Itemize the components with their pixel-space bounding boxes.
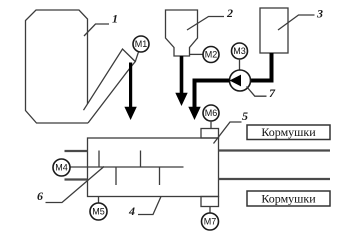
- svg-text:М7: М7: [204, 217, 217, 227]
- feed pipe upper left stub: [65, 150, 88, 152]
- svg-text:5: 5: [242, 109, 248, 123]
- svg-text:М2: М2: [205, 50, 218, 60]
- mixer box 4: [88, 138, 219, 197]
- motor M2: [203, 47, 219, 63]
- motor M6: [203, 105, 219, 121]
- paddle up 1: [98, 151, 100, 168]
- label 7 leader: [247, 87, 267, 97]
- feed pipe upper to feeders: [219, 149, 331, 151]
- arrow from funnel 2: [175, 56, 187, 106]
- arrow from chute outlet: [124, 63, 136, 121]
- pipe tank3 to blower: [250, 53, 272, 81]
- paddle up 2: [140, 151, 142, 168]
- tank 3: [260, 8, 288, 53]
- motor M7: [202, 213, 219, 230]
- svg-text:М3: М3: [233, 46, 246, 56]
- label 2 leader: [187, 17, 224, 31]
- wire M4 to shaft: [70, 166, 88, 168]
- auger shaft 6: [88, 166, 184, 168]
- svg-text:4: 4: [128, 204, 135, 218]
- inclined chute conveyor: [84, 49, 136, 123]
- label 3 leader: [278, 15, 315, 30]
- wire M7 to outlet: [209, 207, 211, 214]
- label 4 leader: [138, 197, 161, 215]
- hopper bin 1: [26, 10, 89, 123]
- pipe blower to mixer inlet: [195, 81, 230, 110]
- feeder box bottom: [247, 191, 330, 206]
- feed pipe lower left stub: [65, 178, 88, 180]
- label 5 leader: [214, 122, 242, 144]
- motor M1: [133, 36, 149, 52]
- inlet neck 5: [201, 129, 219, 139]
- blower valve 7: [230, 70, 251, 91]
- wire M3 to blower: [239, 59, 241, 70]
- svg-text:2: 2: [226, 6, 233, 20]
- svg-text:Кормушки: Кормушки: [261, 125, 316, 139]
- paddle down 1: [115, 167, 117, 185]
- paddle down 2: [159, 167, 161, 185]
- feeder box top: [247, 125, 330, 140]
- funnel hopper 2: [166, 10, 198, 56]
- svg-text:М6: М6: [205, 108, 218, 118]
- svg-text:1: 1: [112, 12, 118, 26]
- svg-text:6: 6: [37, 189, 43, 203]
- label 6 leader: [46, 167, 105, 203]
- svg-text:Кормушки: Кормушки: [261, 192, 316, 206]
- feed pipe lower to feeders: [219, 178, 331, 180]
- motor M4: [53, 159, 70, 176]
- svg-text:М5: М5: [92, 207, 105, 217]
- wire M1 connector: [135, 52, 138, 62]
- motor M3: [232, 43, 248, 59]
- svg-text:М4: М4: [55, 163, 68, 173]
- arrow into mixer: [188, 107, 200, 120]
- wire M6 to inlet: [210, 121, 212, 129]
- svg-text:3: 3: [316, 7, 323, 21]
- label 1 leader: [84, 24, 109, 36]
- svg-text:7: 7: [269, 86, 276, 100]
- svg-text:М1: М1: [135, 39, 148, 49]
- motor M5: [90, 203, 107, 220]
- wire M5 to mixer: [98, 197, 100, 204]
- wire M2 connector: [190, 53, 204, 55]
- outlet neck bottom: [201, 197, 219, 207]
